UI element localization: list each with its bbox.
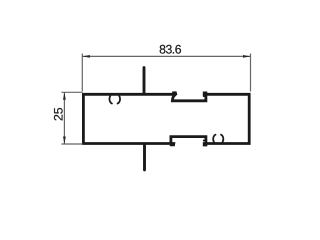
bottom screw-port clip, right arc [221, 135, 223, 142]
svg-text:83.6: 83.6 [159, 43, 182, 57]
extension line, width dim left [81, 54, 83, 92]
top screw-port clip, right arc [118, 96, 120, 104]
dimension line, width 83.6 [82, 55, 250, 57]
extension line, height dim top [61, 91, 82, 93]
bottom screw-port clip, left arc [213, 135, 215, 142]
bottom fin [143, 144, 146, 170]
arrowhead, width dim left [82, 55, 90, 58]
arrowhead, width dim right [243, 55, 251, 58]
extension line, height dim bottom [61, 143, 82, 145]
arrowhead, height dim top [63, 92, 66, 100]
extension line, width dim right [250, 54, 252, 92]
top groove inner lip hook [203, 95, 206, 97]
bottom groove inner lip hook [203, 140, 206, 142]
profile outline (aluminium section, closed path with top and bottom grooves) [83, 93, 249, 145]
top screw-port clip, left arc [109, 96, 111, 104]
arrowhead, height dim bottom [63, 137, 66, 145]
dimension line, height 25 [63, 92, 65, 144]
svg-text:25: 25 [52, 107, 66, 121]
top fin [143, 68, 146, 94]
